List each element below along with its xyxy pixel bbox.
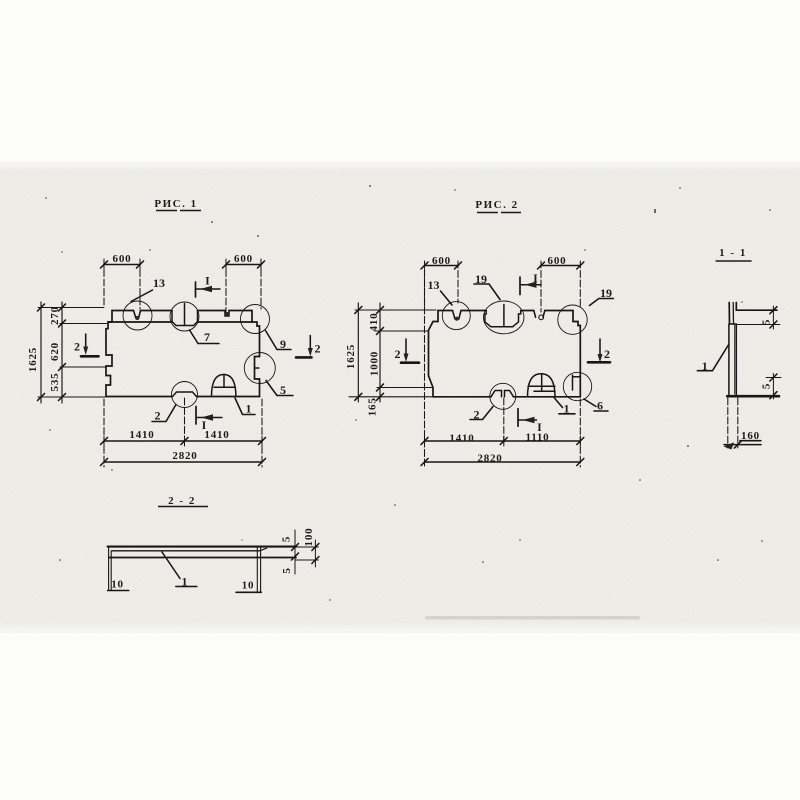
svg-text:5: 5 bbox=[281, 536, 293, 542]
svg-text:1410: 1410 bbox=[204, 429, 229, 441]
svg-text:600: 600 bbox=[113, 253, 132, 265]
svg-text:19: 19 bbox=[475, 272, 487, 286]
svg-text:2: 2 bbox=[395, 347, 401, 361]
svg-text:2: 2 bbox=[74, 340, 80, 354]
svg-text:I: I bbox=[533, 271, 538, 285]
svg-text:6: 6 bbox=[597, 399, 603, 413]
svg-text:5: 5 bbox=[281, 567, 293, 573]
svg-text:2820: 2820 bbox=[172, 450, 197, 462]
svg-text:5: 5 bbox=[761, 319, 773, 325]
svg-text:1 - 1: 1 - 1 bbox=[719, 247, 747, 259]
svg-text:7: 7 bbox=[204, 330, 210, 344]
svg-text:2: 2 bbox=[474, 408, 480, 422]
svg-text:2: 2 bbox=[604, 347, 610, 361]
svg-text:600: 600 bbox=[234, 253, 253, 265]
svg-text:2: 2 bbox=[155, 409, 161, 423]
svg-text:19: 19 bbox=[600, 286, 612, 300]
svg-text:1410: 1410 bbox=[449, 433, 474, 445]
svg-text:РИС. 2: РИС. 2 bbox=[475, 199, 518, 211]
svg-text:2: 2 bbox=[315, 342, 321, 356]
svg-text:270: 270 bbox=[49, 306, 61, 325]
svg-text:5: 5 bbox=[761, 383, 773, 389]
svg-text:2820: 2820 bbox=[477, 453, 502, 465]
svg-text:2 - 2: 2 - 2 bbox=[168, 495, 196, 507]
svg-text:620: 620 bbox=[49, 342, 61, 361]
svg-text:I: I bbox=[205, 274, 210, 288]
svg-text:1000: 1000 bbox=[369, 351, 381, 376]
svg-text:1: 1 bbox=[564, 402, 570, 416]
svg-text:I: I bbox=[537, 420, 542, 434]
svg-text:1: 1 bbox=[702, 359, 708, 373]
svg-text:10: 10 bbox=[242, 580, 255, 592]
svg-text:10: 10 bbox=[111, 579, 124, 591]
svg-text:1625: 1625 bbox=[345, 344, 357, 369]
svg-text:1625: 1625 bbox=[27, 347, 39, 372]
svg-text:535: 535 bbox=[49, 373, 61, 392]
svg-text:9: 9 bbox=[280, 337, 286, 351]
svg-text:165: 165 bbox=[367, 397, 379, 416]
svg-text:410: 410 bbox=[368, 313, 380, 332]
svg-text:13: 13 bbox=[428, 278, 440, 292]
svg-text:РИС. 1: РИС. 1 bbox=[154, 198, 197, 210]
svg-text:100: 100 bbox=[303, 528, 315, 547]
svg-text:I: I bbox=[202, 418, 207, 432]
svg-text:13: 13 bbox=[153, 276, 165, 290]
svg-text:600: 600 bbox=[548, 255, 567, 267]
svg-text:1: 1 bbox=[246, 402, 252, 416]
svg-text:5: 5 bbox=[280, 383, 286, 397]
svg-text:1410: 1410 bbox=[129, 429, 154, 441]
svg-text:1: 1 bbox=[182, 575, 188, 589]
svg-text:600: 600 bbox=[432, 255, 451, 267]
svg-text:160: 160 bbox=[741, 430, 760, 442]
